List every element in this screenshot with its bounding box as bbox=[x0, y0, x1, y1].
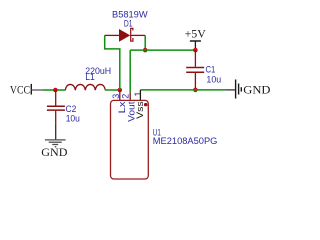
U1 pin 3 stub bbox=[119, 90, 121, 100]
svg-text:C2: C2 bbox=[66, 104, 77, 114]
junction diode/+5V rail bbox=[143, 48, 148, 53]
VCC port lead bbox=[31, 89, 44, 91]
U1 pin 2 stub bbox=[129, 92, 131, 100]
capacitor C2 bottom pin bbox=[55, 111, 57, 124]
svg-text:2: 2 bbox=[120, 94, 130, 99]
ground stub below C2 bbox=[55, 124, 57, 140]
capacitor C1 plates bbox=[186, 67, 204, 69]
svg-text:1: 1 bbox=[133, 91, 143, 96]
junction VCC/C2 bbox=[53, 88, 58, 93]
svg-text:10u: 10u bbox=[206, 74, 221, 84]
wire Vss ground rail bbox=[140, 89, 225, 91]
diode D1 cathode pin bbox=[131, 34, 146, 36]
diode D1 cathode bar with schottky hooks bbox=[131, 28, 133, 42]
diode D1 triangle bbox=[119, 29, 130, 42]
VCC port bar bbox=[30, 84, 32, 95]
wire switch riser bbox=[105, 35, 120, 90]
power ground right bars bbox=[236, 80, 242, 99]
capacitor C1 bottom pin bbox=[194, 73, 196, 90]
svg-text:ME2108A50PG: ME2108A50PG bbox=[153, 136, 218, 146]
svg-text:+5V: +5V bbox=[185, 27, 207, 41]
capacitor C2 plates bbox=[47, 105, 65, 107]
capacitor C2 top pin bbox=[55, 90, 57, 106]
+5V port bar bbox=[190, 40, 201, 42]
diode D1 anode pin bbox=[105, 34, 120, 36]
capacitor C1 top pin bbox=[194, 50, 196, 67]
power ground right lead bbox=[225, 89, 235, 91]
U1 body bbox=[111, 100, 149, 179]
+5V port stub bbox=[194, 41, 196, 48]
inductor L1 bbox=[65, 84, 105, 90]
ground symbol below C2 bbox=[45, 140, 66, 147]
svg-text:L1: L1 bbox=[85, 72, 95, 82]
svg-text:10u: 10u bbox=[66, 114, 80, 124]
junction switch node bbox=[118, 88, 123, 93]
wire L1 to switch junction bbox=[105, 89, 120, 91]
svg-text:VCC: VCC bbox=[10, 82, 30, 96]
svg-text:D1: D1 bbox=[124, 19, 133, 29]
U1 Vss pin dot bbox=[144, 103, 148, 107]
junction +5V/C1 bbox=[193, 48, 198, 53]
U1 pin 1 stub bbox=[139, 90, 141, 101]
svg-text:GND: GND bbox=[41, 145, 68, 159]
svg-text:GND: GND bbox=[243, 83, 271, 97]
wire cathode drop bbox=[144, 35, 146, 50]
wire VCC to L1 bbox=[44, 89, 66, 91]
svg-text:C1: C1 bbox=[206, 64, 216, 74]
junction C1/GND rail bbox=[193, 88, 198, 93]
wire Vout drop bbox=[129, 50, 131, 92]
wire +5V rail bbox=[130, 49, 195, 51]
